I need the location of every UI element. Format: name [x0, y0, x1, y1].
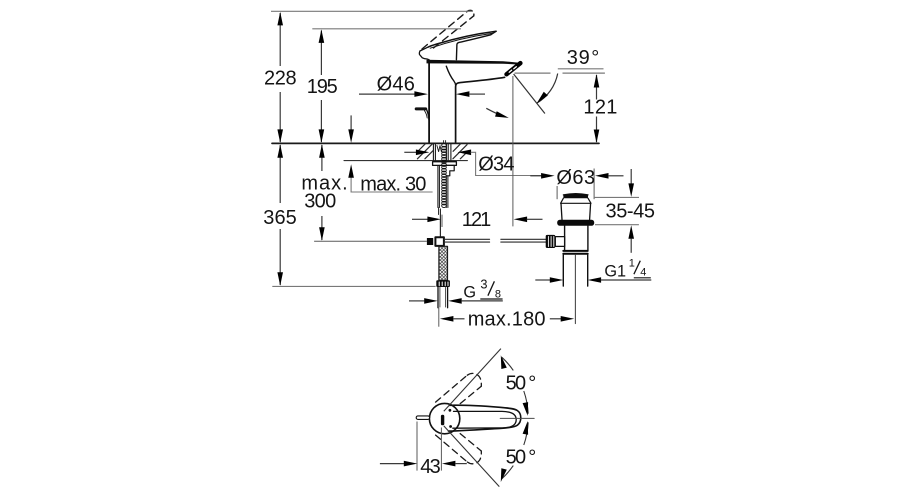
- basin deck underside line: [344, 160, 467, 162]
- lever underside and neck: [456, 35, 490, 60]
- svg-text:35-45: 35-45: [606, 201, 656, 223]
- pivot dots: [449, 409, 452, 412]
- flexible hose braided: [439, 246, 448, 280]
- dim 35-45 top reference line: [594, 196, 639, 198]
- deck hatch right block: [453, 144, 467, 159]
- pop-up vertical rod below deck: [439, 209, 441, 238]
- dim 121 horizontal: left arrow: [412, 218, 428, 220]
- faucet body top cap band: [427, 60, 521, 65]
- dim max300 bottom extension line / rod left: [314, 240, 427, 242]
- lever handle inner top line: [430, 33, 492, 48]
- dim G1 1/4 arrows: [535, 279, 550, 281]
- rod knurl knob: [546, 235, 556, 248]
- dim 121 horizontal: right arrow: [514, 217, 528, 223]
- dim 35-45 bottom arrow: [628, 225, 634, 239]
- TOP VIEW DIMENSIONS: [380, 349, 531, 487]
- svg-text:50 °: 50 °: [506, 372, 537, 394]
- spout outlet extension line: [512, 76, 514, 226]
- dim 195 extension line: [312, 28, 461, 30]
- 50deg lower arc arrowheads: [523, 421, 531, 435]
- dim 43 left arrow: [380, 463, 405, 465]
- pop-up pull rod knob at body rear: [416, 107, 426, 110]
- svg-text:4: 4: [640, 266, 646, 278]
- mounting nut flange: [433, 162, 457, 166]
- lever tip end: [491, 31, 496, 35]
- dim 121 vertical line: [596, 75, 598, 142]
- pop-up knob sides: [561, 203, 591, 219]
- raised lever (dashed) line 2: [434, 16, 474, 48]
- lever top face inner outline: [453, 411, 516, 428]
- dim 195 vertical line: [320, 31, 322, 143]
- svg-text:Ø63: Ø63: [556, 167, 595, 189]
- mounting nut steps: [446, 165, 454, 175]
- dim Ø34 arrows + leader: [404, 151, 416, 153]
- front tab (plan): [416, 416, 429, 420]
- arrowheads 228/195/365/max300/max30: [277, 12, 283, 26]
- dim max30 lower bracket: [351, 176, 433, 192]
- dim max180 left extension line: [438, 308, 440, 327]
- svg-text:max.180: max.180: [468, 309, 546, 331]
- svg-text:195: 195: [307, 76, 338, 98]
- rod connector cylinder: [555, 237, 564, 247]
- dim 35-45 bottom reference line: [595, 224, 639, 226]
- dim 43 extension lines: [416, 422, 418, 471]
- deck hatch left block: [417, 144, 433, 159]
- dashed lever rotated up: [436, 375, 468, 402]
- spout tip aerator band: [507, 63, 521, 74]
- raised lever tip curl (dashed): [467, 10, 474, 15]
- dim Ø63 extension lines: [556, 186, 558, 199]
- lever pivot circle: [429, 403, 459, 433]
- dim max180 right arrow: [550, 318, 561, 320]
- spout underside: [456, 77, 505, 143]
- svg-text:1: 1: [629, 257, 635, 269]
- dim 121 horizontal: extension line: [441, 215, 443, 227]
- dim max180 left arrow: [440, 316, 454, 322]
- pop-up flange (black): [557, 220, 594, 226]
- svg-text:121: 121: [462, 209, 492, 231]
- dim 228 vertical line: [279, 13, 281, 142]
- svg-text:3: 3: [480, 277, 487, 292]
- svg-text:G: G: [463, 283, 476, 301]
- pop-up knob cap band: [563, 194, 588, 199]
- 39deg label underline: [558, 68, 604, 70]
- svg-text:°: °: [591, 47, 599, 69]
- svg-text:50 °: 50 °: [506, 446, 537, 468]
- 50deg upper diagonal: [444, 349, 501, 412]
- hose end tube: [438, 287, 448, 308]
- TOP VIEW: [416, 373, 534, 463]
- dim 365 vertical line: [279, 145, 281, 285]
- dim 228 extension line top: [271, 10, 473, 12]
- lever handle top edge: [428, 31, 496, 47]
- lever outline (plan): [449, 405, 521, 431]
- 50deg upper arc segments: [502, 357, 513, 370]
- dim 35-45 top arrow: [630, 169, 632, 184]
- svg-text:Ø46: Ø46: [377, 74, 415, 96]
- shank parts inside deck hole: [433, 141, 451, 161]
- pop-up body bottom bands: [563, 251, 587, 254]
- dim G3/8 arrows: [409, 300, 424, 302]
- dim max300 vertical line: [321, 145, 323, 240]
- svg-text:max. 30: max. 30: [360, 173, 426, 195]
- dim max30 upper arrow line: [350, 115, 352, 130]
- 39deg arc: [537, 74, 558, 104]
- rod clamp joint: [427, 238, 433, 245]
- svg-text:G1: G1: [604, 262, 626, 280]
- svg-text:300: 300: [304, 191, 336, 213]
- G3/8 hose connector: [436, 280, 450, 287]
- swivel arc arrow: [486, 108, 504, 117]
- 50deg upper arc arrowheads: [498, 355, 507, 369]
- tailpipe: [563, 255, 587, 286]
- svg-text:228: 228: [264, 68, 297, 90]
- pivot black bar: [441, 415, 444, 426]
- lever back face and hook: [419, 47, 429, 60]
- body neck curve: [446, 66, 455, 85]
- threaded shank walls: [438, 165, 440, 207]
- raised lever (dashed) line 1: [422, 12, 467, 50]
- MAIN VIEW DIMENSIONS: [271, 11, 605, 326]
- pop-up body below flange: [565, 226, 588, 251]
- basin deck line: [272, 142, 599, 144]
- dashed lever rotated down: [436, 435, 468, 462]
- horizontal pop-up rod: [444, 239, 490, 242]
- svg-text:43: 43: [420, 456, 441, 478]
- 50deg lower arc segments: [524, 422, 528, 445]
- svg-text:Ø34: Ø34: [478, 153, 514, 175]
- POPUP DIMENSIONS: [530, 169, 651, 283]
- 39deg horizontal reference line: [515, 72, 605, 74]
- faucet body left edge: [428, 62, 430, 143]
- svg-text:121: 121: [583, 97, 617, 119]
- spray angle line 39deg: [514, 74, 545, 114]
- dim Ø46 line + arrows: [359, 93, 415, 95]
- 50deg lower diagonal: [444, 426, 500, 487]
- svg-text:39: 39: [567, 47, 590, 69]
- MAIN FRONT VIEW: [272, 10, 599, 307]
- shank thread chain texture: [442, 144, 447, 208]
- svg-text:365: 365: [263, 207, 297, 229]
- pop-up knob dome top: [563, 194, 588, 195]
- dim 365 bottom extension line: [272, 285, 435, 287]
- dim 43 right arrow: [442, 461, 456, 467]
- POPUP WASTE VIEW: [546, 194, 595, 324]
- 39deg arc arrowhead: [535, 92, 548, 106]
- pop-up knob rim flare: [561, 198, 591, 203]
- lever centerline: [500, 417, 534, 419]
- tailpipe centerline: [574, 255, 576, 324]
- dim Ø63 arrows: [530, 175, 541, 177]
